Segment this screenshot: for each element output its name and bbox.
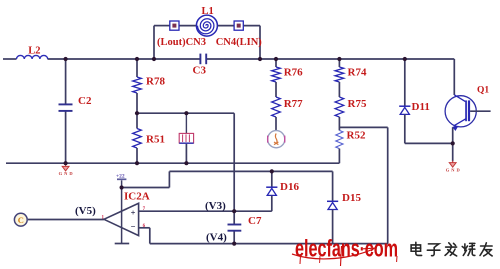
svg-text:(V4): (V4) [206, 231, 227, 243]
svg-text:+: + [131, 208, 136, 218]
svg-text:GND: GND [59, 171, 74, 176]
svg-text:+22: +22 [116, 173, 125, 179]
svg-text:R74: R74 [348, 66, 367, 78]
svg-text:GND: GND [446, 167, 461, 172]
svg-text:D11: D11 [412, 101, 430, 113]
svg-text:(Lout)CN3: (Lout)CN3 [157, 37, 206, 48]
svg-text:(V3): (V3) [205, 200, 226, 212]
svg-text:C7: C7 [248, 215, 262, 227]
svg-text:D16: D16 [280, 181, 299, 193]
svg-text:D15: D15 [342, 192, 361, 204]
svg-text:CN4(LIN): CN4(LIN) [216, 37, 263, 48]
svg-text:IC2A: IC2A [124, 190, 150, 202]
svg-text:R76: R76 [284, 66, 303, 78]
svg-text:C3: C3 [193, 65, 207, 77]
svg-text:−: − [131, 221, 136, 231]
svg-text:R77: R77 [284, 98, 303, 110]
svg-text:R52: R52 [347, 130, 366, 142]
svg-text:C: C [18, 215, 24, 225]
svg-text:R78: R78 [146, 75, 165, 87]
svg-text:L1: L1 [202, 6, 214, 17]
svg-text:C2: C2 [78, 95, 92, 107]
svg-text:R51: R51 [146, 133, 165, 145]
svg-text:Q1: Q1 [477, 86, 489, 96]
svg-text:(V5): (V5) [75, 205, 96, 217]
svg-text:R75: R75 [348, 98, 367, 110]
svg-text:L2: L2 [28, 46, 40, 57]
